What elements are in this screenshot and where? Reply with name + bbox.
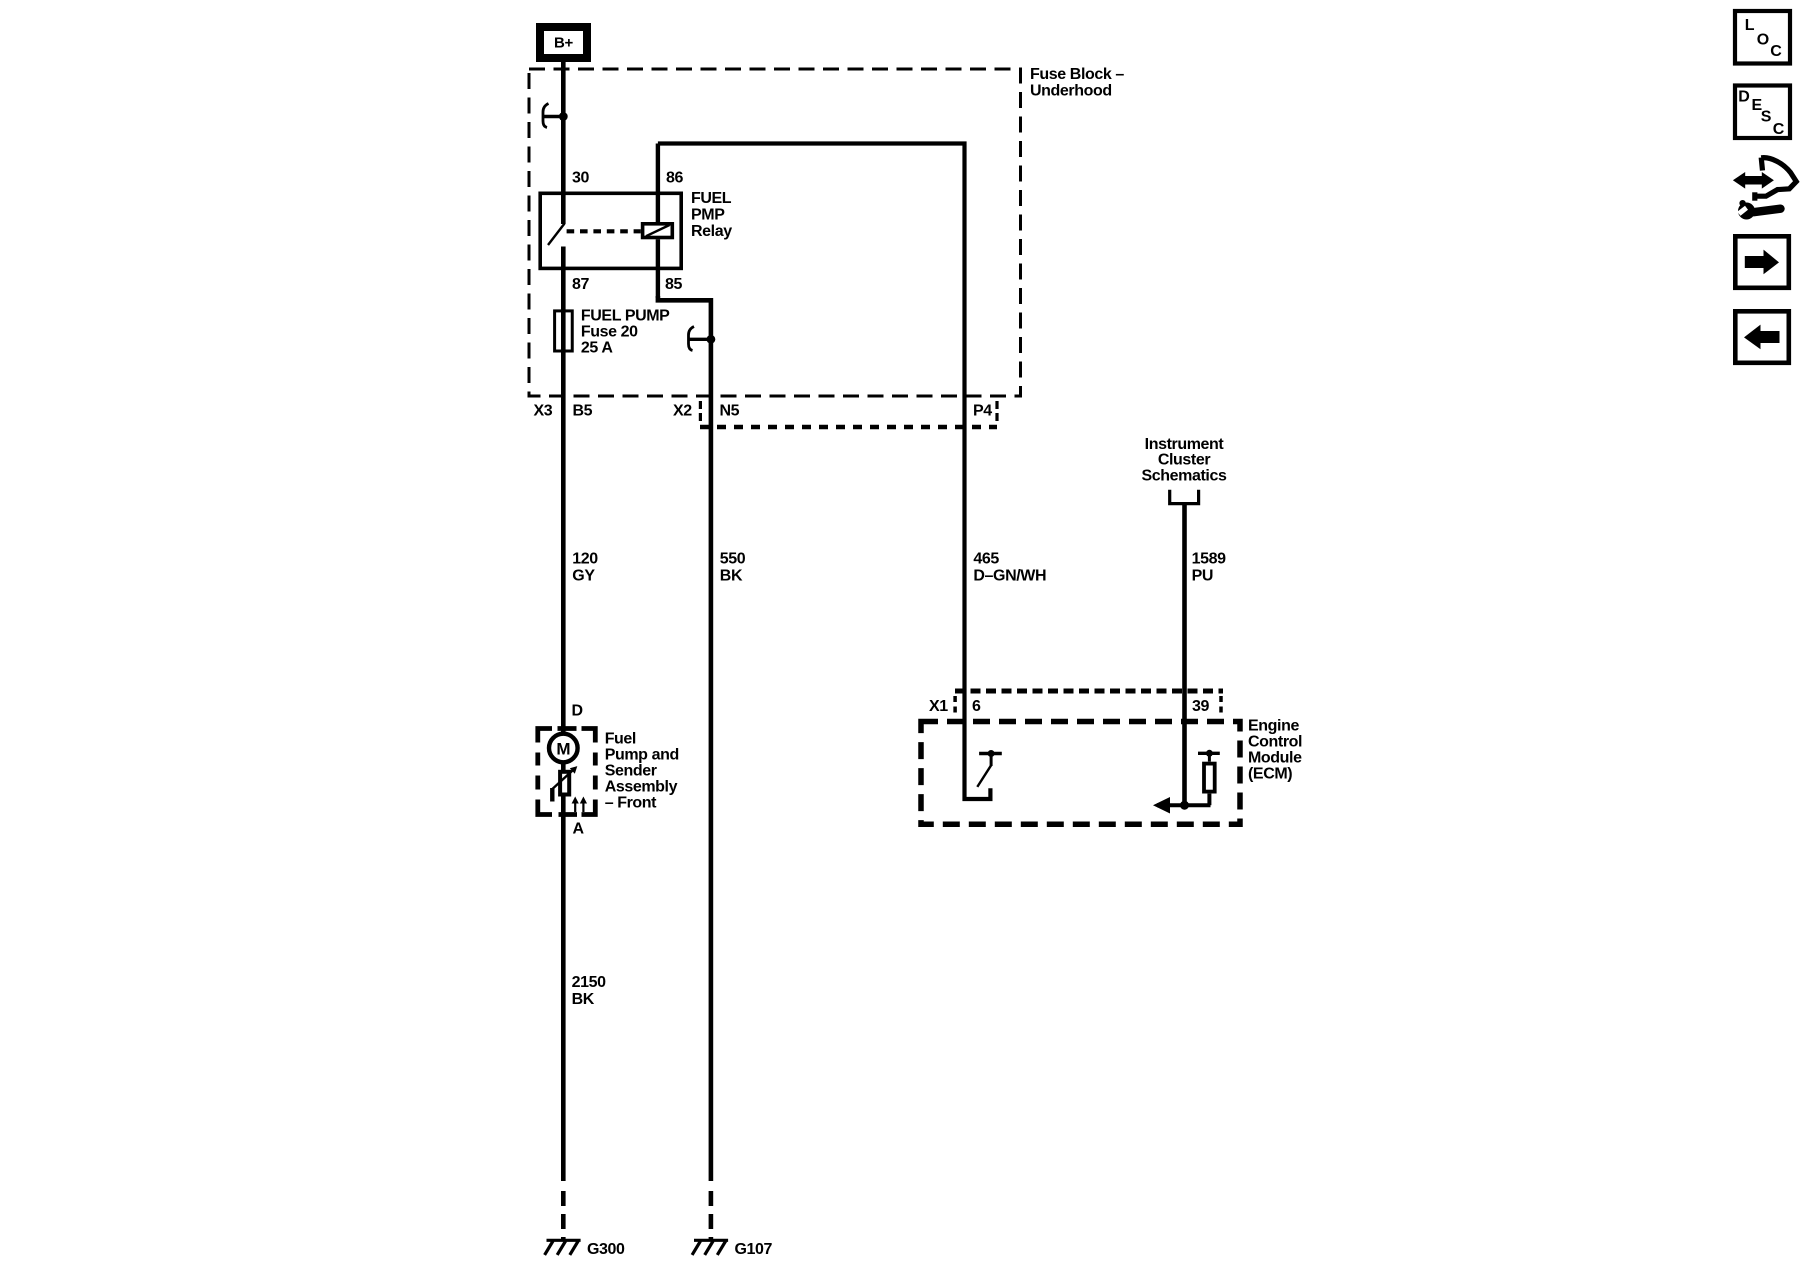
Fuel Pump and Sender Assembly dashed box bbox=[538, 729, 596, 815]
svg-text:Relay: Relay bbox=[691, 223, 732, 240]
ECM pin 6 driver switch bbox=[977, 750, 1002, 787]
svg-text:FUEL: FUEL bbox=[691, 190, 732, 207]
svg-text:PMP: PMP bbox=[691, 206, 725, 223]
svg-text:86: 86 bbox=[666, 170, 683, 187]
svg-text:– Front: – Front bbox=[605, 795, 657, 812]
wire label 550 BK bbox=[720, 551, 746, 585]
svg-text:X3: X3 bbox=[534, 403, 553, 420]
svg-text:N5: N5 bbox=[720, 403, 740, 420]
svg-text:Schematics: Schematics bbox=[1142, 468, 1227, 485]
svg-text:Engine: Engine bbox=[1248, 718, 1299, 735]
svg-text:120: 120 bbox=[572, 551, 598, 568]
relay coil box bbox=[643, 224, 673, 238]
svg-text:M: M bbox=[556, 740, 570, 759]
ECM dashed box bbox=[921, 722, 1240, 825]
ground G107 bbox=[692, 1240, 772, 1258]
connector N5-P4 dashed outline bbox=[700, 401, 997, 427]
Fuse Block - Underhood dashed box bbox=[529, 69, 1021, 396]
svg-text:Fuel: Fuel bbox=[605, 731, 636, 748]
wire 85 jog to 550 BK column bbox=[658, 296, 711, 1181]
svg-text:X1: X1 bbox=[929, 698, 948, 715]
back arrow icon bbox=[1735, 311, 1789, 363]
relay actuation dashed link bbox=[567, 229, 641, 233]
svg-text:39: 39 bbox=[1192, 698, 1209, 715]
sender arrows bbox=[572, 797, 587, 813]
wire label 2150 BK bbox=[572, 974, 606, 1008]
clip symbol on 550 wire bbox=[689, 327, 716, 351]
svg-text:1589: 1589 bbox=[1192, 551, 1226, 568]
svg-text:C: C bbox=[1773, 121, 1785, 138]
off-page connector cup bbox=[1170, 490, 1199, 504]
B+ supply box bbox=[536, 23, 591, 62]
svg-text:C: C bbox=[1770, 43, 1782, 60]
svg-text:BK: BK bbox=[720, 567, 743, 584]
wire 86 top link to P4 and down to ECM pin 6 bbox=[658, 144, 991, 800]
svg-text:S: S bbox=[1761, 108, 1772, 125]
pump motor M bbox=[549, 734, 578, 763]
wire label 120 GY bbox=[572, 551, 598, 585]
DESC icon box bbox=[1735, 86, 1790, 139]
wire B+ to relay pin 30 bbox=[561, 62, 566, 224]
svg-text:Module: Module bbox=[1248, 750, 1302, 767]
svg-text:85: 85 bbox=[665, 276, 682, 293]
svg-text:25 A: 25 A bbox=[581, 339, 613, 356]
hotlink wrench icon bbox=[1733, 158, 1796, 220]
ECM connector dotted line bbox=[955, 689, 1223, 694]
svg-text:BK: BK bbox=[572, 991, 595, 1008]
relay label bbox=[691, 190, 732, 240]
ECM connector ticks bbox=[953, 696, 957, 716]
svg-text:B5: B5 bbox=[573, 403, 593, 420]
fuse label bbox=[581, 308, 670, 357]
clip symbol on B+ wire bbox=[543, 104, 568, 128]
svg-text:Fuse 20: Fuse 20 bbox=[581, 323, 638, 340]
svg-text:6: 6 bbox=[972, 698, 981, 715]
assembly label bbox=[605, 731, 679, 812]
wire pin 87 down through fuse bbox=[561, 247, 566, 1182]
svg-text:Control: Control bbox=[1248, 734, 1302, 751]
relay FUEL PMP box bbox=[540, 193, 681, 268]
svg-text:G107: G107 bbox=[735, 1241, 773, 1258]
svg-text:87: 87 bbox=[572, 276, 589, 293]
svg-text:D: D bbox=[1738, 89, 1749, 106]
svg-text:(ECM): (ECM) bbox=[1248, 766, 1292, 783]
relay switch blade bbox=[548, 224, 565, 246]
fuel level sender rheostat bbox=[552, 766, 577, 801]
Instrument Cluster Schematics label bbox=[1142, 436, 1227, 485]
svg-text:X2: X2 bbox=[673, 403, 692, 420]
svg-text:550: 550 bbox=[720, 551, 746, 568]
svg-text:Underhood: Underhood bbox=[1030, 82, 1112, 99]
wire 1589 PU down to ECM pin 39 bbox=[1182, 503, 1187, 806]
svg-text:G300: G300 bbox=[587, 1241, 625, 1258]
dashed wire to G300 bbox=[561, 1183, 566, 1240]
svg-text:L: L bbox=[1745, 17, 1755, 34]
dashed wire to G107 bbox=[709, 1183, 714, 1240]
svg-text:Sender: Sender bbox=[605, 763, 657, 780]
ECM label bbox=[1248, 718, 1302, 783]
svg-text:FUEL PUMP: FUEL PUMP bbox=[581, 308, 670, 325]
Fuse Block label bbox=[1030, 66, 1124, 100]
svg-text:A: A bbox=[573, 821, 585, 838]
ECM pin 39 pull-up resistor bbox=[1153, 750, 1220, 814]
svg-text:P4: P4 bbox=[973, 403, 992, 420]
svg-text:D–GN/WH: D–GN/WH bbox=[973, 567, 1046, 584]
svg-text:D: D bbox=[572, 703, 583, 720]
svg-text:2150: 2150 bbox=[572, 974, 606, 991]
relay coil wire (pin 86 feed) bbox=[656, 144, 660, 223]
svg-text:PU: PU bbox=[1192, 567, 1213, 584]
wire label 1589 PU bbox=[1192, 551, 1226, 585]
svg-text:B+: B+ bbox=[554, 35, 574, 52]
svg-text:Instrument: Instrument bbox=[1145, 436, 1225, 453]
svg-text:Pump and: Pump and bbox=[605, 747, 679, 764]
wire label 465 D-GN/WH bbox=[973, 551, 1046, 585]
svg-text:Fuse Block –: Fuse Block – bbox=[1030, 66, 1124, 83]
FUEL PUMP fuse bbox=[555, 311, 573, 351]
LOC icon box bbox=[1735, 11, 1790, 64]
svg-text:Cluster: Cluster bbox=[1158, 452, 1210, 469]
forward arrow icon bbox=[1735, 236, 1789, 287]
svg-text:30: 30 bbox=[572, 170, 589, 187]
svg-text:465: 465 bbox=[973, 551, 999, 568]
ground G300 bbox=[545, 1240, 625, 1258]
svg-text:O: O bbox=[1757, 31, 1769, 48]
svg-text:Assembly: Assembly bbox=[605, 779, 678, 796]
svg-text:GY: GY bbox=[572, 567, 595, 584]
